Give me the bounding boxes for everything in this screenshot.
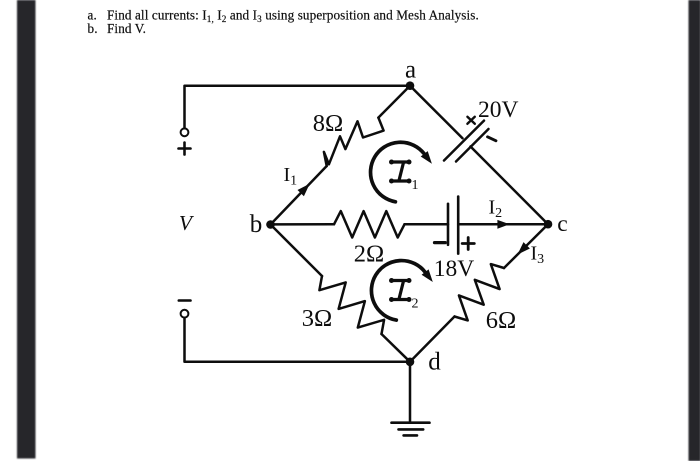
svg-text:I3: I3 — [531, 243, 545, 268]
svg-text:c: c — [557, 211, 567, 237]
svg-text:V: V — [179, 211, 195, 235]
svg-text:20V: 20V — [478, 97, 519, 123]
svg-text:8Ω: 8Ω — [313, 110, 343, 137]
svg-text:3Ω: 3Ω — [302, 305, 332, 332]
svg-text:I2: I2 — [489, 197, 503, 222]
svg-text:18V: 18V — [434, 256, 475, 282]
svg-text:Find all currents: I1, I2 and: Find all currents: I1, I2 and I3 using s… — [107, 8, 479, 25]
svg-text:d: d — [428, 349, 441, 376]
svg-text:2: 2 — [412, 297, 419, 312]
svg-text:b: b — [250, 211, 263, 238]
svg-text:2Ω: 2Ω — [354, 241, 384, 268]
svg-text:Find V.: Find V. — [107, 21, 146, 36]
svg-text:I1: I1 — [284, 164, 298, 189]
svg-text:6Ω: 6Ω — [486, 307, 516, 334]
svg-text:1: 1 — [412, 178, 419, 193]
svg-text:b.: b. — [88, 21, 98, 36]
svg-text:a: a — [405, 57, 416, 84]
